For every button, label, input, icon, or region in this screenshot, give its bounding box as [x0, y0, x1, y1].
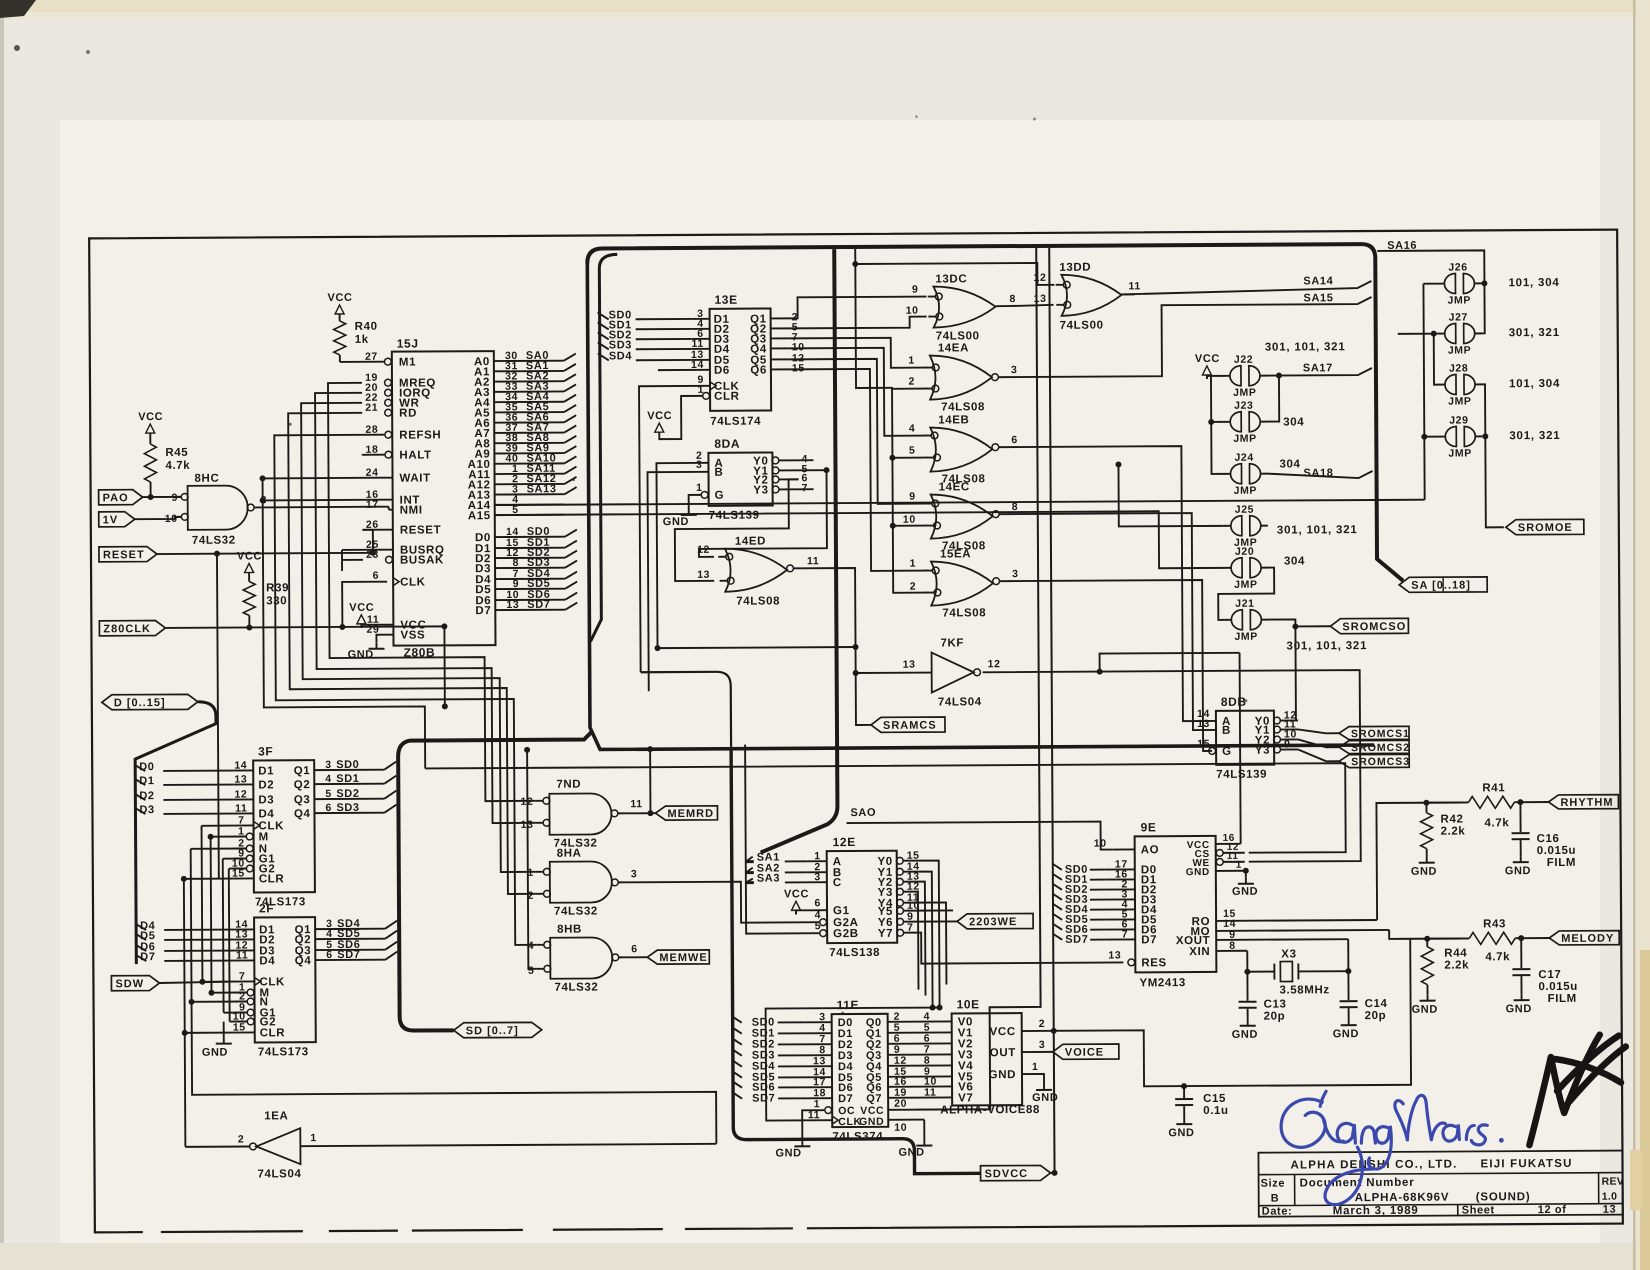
- svg-text:ALPHA-VOICE88: ALPHA-VOICE88: [940, 1104, 1040, 1117]
- wires gate second inputs common vertical: [855, 249, 928, 593]
- svg-text:D1: D1: [139, 775, 154, 787]
- svg-text:(SOUND): (SOUND): [1476, 1191, 1531, 1203]
- svg-text:R39: R39: [266, 582, 289, 594]
- wire 8DB Y0 up to SROMCSO node: [1295, 626, 1298, 720]
- jumper J28: [1445, 375, 1456, 395]
- svg-text:9E: 9E: [1141, 820, 1157, 834]
- wire N rail down to bottom rail: [192, 999, 717, 1147]
- svg-text:J21: J21: [1235, 598, 1254, 610]
- svg-text:7: 7: [907, 922, 914, 934]
- svg-text:FILM: FILM: [1548, 993, 1577, 1005]
- capacitor C16 0.015u FILM: [1519, 802, 1521, 832]
- wire 10E VCC to SDVCC net: [1022, 1030, 1054, 1032]
- svg-text:R44: R44: [1444, 947, 1467, 959]
- svg-text:1: 1: [1032, 1061, 1039, 1073]
- svg-text:330: 330: [266, 595, 287, 607]
- svg-text:VCC: VCC: [647, 410, 672, 422]
- svg-text:301, 101, 321: 301, 101, 321: [1286, 640, 1367, 652]
- svg-text:SD2: SD2: [336, 788, 359, 800]
- svg-text:11E: 11E: [837, 998, 860, 1012]
- svg-text:D4: D4: [258, 808, 274, 820]
- svg-text:CLR: CLR: [259, 873, 285, 885]
- svg-text:14: 14: [234, 760, 247, 772]
- svg-text:JMP: JMP: [1233, 387, 1256, 399]
- svg-text:301, 321: 301, 321: [1509, 430, 1560, 442]
- IC 2F 74LS173: [254, 917, 316, 1042]
- wire - thick vertical from SD bus down left of 11E: [731, 747, 980, 1174]
- svg-text:2: 2: [1039, 1018, 1046, 1030]
- wire PAO to 8HC: [143, 496, 181, 498]
- svg-text:C16: C16: [1537, 833, 1560, 845]
- svg-text:WAIT: WAIT: [400, 472, 431, 484]
- svg-text:R41: R41: [1482, 782, 1505, 794]
- svg-text:4.7k: 4.7k: [1485, 951, 1510, 963]
- svg-text:2: 2: [909, 376, 916, 388]
- wire SDVCC to C15 rail: [1053, 939, 1411, 1087]
- net flag RESET: [99, 547, 157, 562]
- net flag SDVCC: [981, 1165, 1051, 1180]
- wire 9E VCC rail upper: [1100, 653, 1240, 672]
- svg-text:SAO: SAO: [850, 807, 876, 819]
- wires 8DA inputs from below: [656, 463, 691, 648]
- capacitor C17 0.015u FILM: [1520, 938, 1522, 968]
- svg-text:14EB: 14EB: [938, 414, 969, 426]
- svg-text:SROMCS1: SROMCS1: [1351, 728, 1410, 740]
- net flag 2203WE: [957, 913, 1033, 928]
- svg-text:A15: A15: [468, 510, 491, 522]
- wire 14EB out to 8DB A: [1005, 446, 1216, 722]
- svg-text:GND: GND: [663, 516, 689, 528]
- svg-text:13: 13: [697, 569, 710, 581]
- svg-text:NMI: NMI: [400, 504, 423, 516]
- wire A14 long run to J26/J29 left rail: [495, 500, 1425, 505]
- svg-text:SROMCSO: SROMCSO: [1342, 621, 1406, 633]
- svg-text:74LS00: 74LS00: [936, 330, 980, 342]
- svg-text:G: G: [1222, 746, 1232, 758]
- svg-text:SD7: SD7: [1065, 934, 1088, 946]
- net flag RHYTHM: [1548, 795, 1618, 809]
- wire 12E G2B from bus: [745, 744, 819, 933]
- svg-text:GND: GND: [775, 1147, 801, 1159]
- wire 12E Y7 to 9E RES: [919, 931, 1123, 963]
- svg-text:6: 6: [373, 570, 380, 582]
- svg-text:74LS32: 74LS32: [554, 981, 598, 993]
- svg-text:23: 23: [366, 549, 379, 561]
- svg-text:D2: D2: [258, 779, 274, 791]
- jumper J26: [1444, 274, 1455, 294]
- title block: [1258, 1151, 1622, 1217]
- svg-text:13: 13: [903, 659, 916, 671]
- svg-text:12: 12: [234, 789, 247, 801]
- svg-text:9: 9: [909, 491, 916, 503]
- wire 11E CLK: [766, 1008, 941, 1121]
- svg-text:4: 4: [325, 773, 332, 785]
- net flag SROMCS2: [1339, 740, 1409, 753]
- wire 13DD output SA14 to bus: [1121, 281, 1371, 294]
- wire 1V to 8HC: [135, 517, 181, 519]
- svg-text:J24: J24: [1234, 452, 1253, 464]
- svg-text:2: 2: [527, 890, 534, 902]
- svg-text:JMP: JMP: [1234, 579, 1257, 591]
- net flag 1V: [99, 512, 135, 527]
- wire RESET net down to 3F CLR rail: [217, 554, 219, 879]
- svg-text:4: 4: [528, 940, 535, 952]
- svg-text:Q1: Q1: [294, 765, 311, 777]
- svg-text:5: 5: [909, 445, 916, 457]
- svg-text:1: 1: [310, 1132, 317, 1144]
- svg-text:D2: D2: [139, 790, 154, 802]
- svg-text:CLK: CLK: [400, 576, 426, 588]
- svg-text:REV: REV: [1602, 1176, 1625, 1188]
- net flag D[0..15] bus: [102, 694, 198, 710]
- jumper J21: [1231, 610, 1242, 630]
- IC 8DA 74LS139: [708, 452, 772, 505]
- svg-text:27: 27: [365, 351, 378, 363]
- svg-text:8HC: 8HC: [195, 473, 220, 485]
- svg-text:GND: GND: [859, 1116, 884, 1128]
- wire 10E OUT to VOICE: [1022, 1051, 1053, 1053]
- svg-text:GND: GND: [348, 649, 374, 661]
- svg-text:RESET: RESET: [400, 524, 441, 536]
- wire 1EA output to CLR rail: [185, 1145, 249, 1147]
- svg-text:12E: 12E: [833, 835, 856, 849]
- svg-text:X3: X3: [1281, 948, 1296, 960]
- svg-text:6: 6: [815, 897, 822, 909]
- wire 12E Y5: [919, 909, 953, 911]
- jumper J22: [1230, 366, 1241, 386]
- capacitor C13 20p: [1246, 972, 1248, 1001]
- jumper J20: [1231, 558, 1242, 578]
- wire - SD/SA bus, top horizontal run: [587, 244, 1403, 586]
- svg-text:D6: D6: [714, 365, 730, 377]
- svg-text:10: 10: [906, 305, 919, 317]
- svg-text:SA [0..18]: SA [0..18]: [1411, 579, 1471, 591]
- svg-text:13: 13: [1603, 1204, 1617, 1216]
- svg-text:SROMCS2: SROMCS2: [1351, 742, 1410, 754]
- svg-text:Size: Size: [1261, 1178, 1285, 1190]
- net flag Z80CLK: [99, 620, 165, 635]
- svg-text:SA14: SA14: [1303, 275, 1333, 287]
- svg-text:D7: D7: [140, 951, 155, 963]
- svg-text:SD3: SD3: [336, 802, 359, 814]
- wires 12E outputs down: [919, 861, 940, 1008]
- svg-text:J23: J23: [1234, 400, 1253, 412]
- wire RESET to Z80: [157, 530, 373, 554]
- svg-text:GND: GND: [1411, 866, 1437, 878]
- svg-text:11: 11: [1128, 280, 1140, 292]
- svg-text:VCC: VCC: [349, 602, 374, 614]
- svg-text:C15: C15: [1203, 1093, 1226, 1105]
- svg-text:ALPHA-68K96V: ALPHA-68K96V: [1355, 1192, 1450, 1205]
- svg-text:74LS04: 74LS04: [938, 696, 982, 708]
- svg-text:SD [0..7]: SD [0..7]: [466, 1025, 519, 1037]
- svg-text:15: 15: [792, 362, 805, 374]
- wire R40 to M1: [339, 355, 341, 362]
- resistor R42 2.2k: [1425, 803, 1427, 813]
- svg-text:1.0: 1.0: [1602, 1191, 1618, 1203]
- net flag SROMCSO: [1330, 618, 1408, 633]
- border frame of schematic sheet: [89, 230, 1623, 1233]
- svg-text:74LS32: 74LS32: [192, 535, 236, 547]
- wire - SA taps to 12E A B C: [746, 857, 753, 862]
- net flag MELODY: [1549, 931, 1619, 945]
- net flag SDW: [111, 976, 159, 991]
- svg-text:20: 20: [894, 1098, 907, 1110]
- net flag MEMWE: [647, 950, 709, 964]
- svg-text:J28: J28: [1449, 362, 1468, 374]
- svg-text:10: 10: [903, 514, 916, 526]
- svg-text:15: 15: [1197, 738, 1210, 750]
- svg-text:JMP: JMP: [1234, 631, 1257, 643]
- svg-text:2F: 2F: [259, 901, 274, 915]
- svg-text:SA13: SA13: [527, 483, 557, 495]
- svg-text:6: 6: [325, 802, 332, 814]
- svg-text:JMP: JMP: [1447, 294, 1470, 306]
- svg-text:1: 1: [908, 355, 915, 367]
- svg-text:101, 304: 101, 304: [1508, 277, 1559, 289]
- svg-text:2.2k: 2.2k: [1444, 959, 1469, 971]
- wire WAIT/INT bundle to CS rail: [263, 477, 426, 769]
- svg-text:SD7: SD7: [752, 1092, 775, 1104]
- jumper J23: [1230, 412, 1241, 432]
- svg-text:Q4: Q4: [295, 955, 312, 967]
- svg-text:MEMWE: MEMWE: [659, 952, 707, 964]
- wire RO to RHYTHM rail: [1376, 803, 1463, 920]
- wires D4-D7 inputs: [136, 924, 146, 930]
- capacitor C14 20p: [1347, 971, 1349, 1000]
- wire CLR of 3F/2F to 1EA: [184, 879, 186, 1147]
- svg-text:5: 5: [325, 788, 332, 800]
- svg-text:6: 6: [631, 943, 638, 955]
- svg-text:B: B: [1222, 725, 1231, 737]
- svg-text:D0: D0: [139, 761, 154, 773]
- svg-text:74LS139: 74LS139: [709, 510, 760, 522]
- svg-text:D3: D3: [258, 794, 274, 806]
- IC 8DB 74LS139: [1216, 711, 1274, 765]
- svg-text:12 of: 12 of: [1538, 1204, 1567, 1216]
- svg-text:D7: D7: [838, 1093, 853, 1105]
- svg-text:12: 12: [988, 658, 1001, 670]
- wire J21 right to SROMCSO: [1268, 619, 1330, 626]
- svg-text:11: 11: [807, 555, 819, 567]
- IC 12E 74LS138: [827, 851, 898, 943]
- jumper J29: [1445, 427, 1456, 447]
- svg-text:1: 1: [1236, 860, 1242, 871]
- svg-text:G: G: [715, 490, 725, 502]
- svg-text:7: 7: [802, 482, 809, 494]
- svg-text:8DA: 8DA: [714, 437, 740, 451]
- wire J25 left riser: [1118, 464, 1223, 527]
- svg-text:Sheet: Sheet: [1462, 1204, 1495, 1216]
- svg-text:Z80CLK: Z80CLK: [103, 623, 151, 635]
- svg-text:11: 11: [630, 798, 642, 810]
- svg-text:M1: M1: [399, 357, 416, 369]
- svg-text:EIJI FUKATSU: EIJI FUKATSU: [1480, 1158, 1572, 1171]
- svg-text:XIN: XIN: [1189, 946, 1210, 958]
- wire - SA bus mid vertical: [757, 249, 837, 852]
- net flag SROMCS3: [1339, 754, 1409, 767]
- svg-text:1k: 1k: [355, 334, 369, 346]
- IC Z80B 15J: [392, 351, 496, 646]
- ground at Z80 VSS: [376, 635, 393, 643]
- wire 14EA out SA15 to bus: [1005, 297, 1372, 377]
- svg-text:7KF: 7KF: [940, 637, 964, 649]
- svg-text:OUT: OUT: [990, 1047, 1016, 1059]
- svg-text:4: 4: [909, 423, 916, 435]
- svg-text:Q6: Q6: [750, 365, 767, 377]
- svg-text:GND: GND: [1505, 865, 1531, 877]
- wire 8HC output to Z80 NMI: [261, 506, 389, 509]
- svg-text:9: 9: [1284, 738, 1291, 750]
- IC 3F 74LS173: [253, 760, 315, 892]
- svg-text:14EA: 14EA: [938, 342, 969, 354]
- wire - vertical bus x=1052 down to SDVCC: [1049, 248, 1054, 1173]
- svg-text:20p: 20p: [1365, 1010, 1387, 1022]
- wire 7KF output to 9E WE: [983, 670, 1361, 863]
- svg-text:11: 11: [924, 1087, 936, 1099]
- svg-text:RES: RES: [1141, 957, 1167, 969]
- svg-text:8: 8: [1009, 293, 1016, 305]
- svg-text:101, 304: 101, 304: [1509, 378, 1560, 390]
- svg-text:3: 3: [1011, 364, 1018, 376]
- svg-text:5: 5: [528, 965, 535, 977]
- svg-text:Y7: Y7: [878, 928, 893, 940]
- svg-text:D [0..15]: D [0..15]: [114, 697, 166, 709]
- net flag SA[0..18] bus: [1399, 577, 1487, 593]
- svg-text:0.1u: 0.1u: [1203, 1105, 1228, 1117]
- wire A15 long run to J20: [495, 511, 1224, 572]
- svg-text:PAO: PAO: [103, 492, 129, 504]
- svg-text:R42: R42: [1440, 813, 1463, 825]
- wire - vertical bus x=1039: [909, 248, 1041, 1110]
- wire SDW to CLK pins: [159, 982, 234, 983]
- svg-text:13: 13: [1197, 718, 1210, 730]
- svg-text:SA15: SA15: [1303, 292, 1333, 304]
- svg-text:C: C: [833, 877, 842, 889]
- svg-text:28: 28: [365, 424, 378, 436]
- handwritten title Gang Wars in blue ink: [1281, 1090, 1504, 1205]
- svg-text:12: 12: [697, 544, 710, 556]
- svg-text:SDVCC: SDVCC: [985, 1168, 1029, 1180]
- net flag VOICE: [1053, 1044, 1119, 1059]
- svg-text:2: 2: [238, 1134, 245, 1146]
- svg-text:15J: 15J: [397, 337, 419, 351]
- svg-text:C17: C17: [1538, 969, 1561, 981]
- wire MO to MELODY rail: [1389, 930, 1463, 939]
- wires 8DA outputs: [798, 469, 826, 471]
- svg-text:304: 304: [1279, 458, 1300, 470]
- svg-text:11: 11: [235, 803, 247, 815]
- wire - SD bus to SD[0..7] flag: [398, 732, 594, 1031]
- ground at 10E: [1022, 1074, 1044, 1084]
- svg-text:74LS04: 74LS04: [258, 1168, 302, 1180]
- svg-text:SD7: SD7: [337, 949, 360, 961]
- svg-text:March 3, 1989: March 3, 1989: [1333, 1205, 1419, 1217]
- svg-text:8: 8: [1229, 940, 1236, 952]
- svg-text:3: 3: [814, 871, 821, 883]
- svg-text:20p: 20p: [1264, 1011, 1286, 1023]
- svg-text:REFSH: REFSH: [399, 429, 441, 441]
- svg-text:J22: J22: [1234, 354, 1253, 366]
- svg-text:17: 17: [366, 499, 379, 511]
- svg-text:74LS08: 74LS08: [941, 401, 985, 413]
- wire 8HB second input riser: [527, 750, 536, 969]
- svg-text:6: 6: [1011, 434, 1018, 446]
- svg-text:13DD: 13DD: [1059, 262, 1091, 274]
- svg-text:10: 10: [894, 1122, 907, 1134]
- svg-text:RHYTHM: RHYTHM: [1560, 797, 1613, 809]
- IC 10E ALPHA-VOICE88: [952, 1013, 1023, 1105]
- svg-text:YM2413: YM2413: [1139, 977, 1186, 989]
- net flag MEMRD: [655, 806, 717, 820]
- wire J26/J29 left leads vertical: [1423, 284, 1424, 500]
- IC 11E 74LS374: [832, 1014, 889, 1127]
- svg-text:R45: R45: [165, 447, 188, 459]
- svg-text:3: 3: [1039, 1039, 1046, 1051]
- svg-text:VCC: VCC: [237, 550, 262, 562]
- svg-text:2.2k: 2.2k: [1441, 825, 1466, 837]
- svg-text:0.015u: 0.015u: [1537, 845, 1576, 857]
- svg-text:GND: GND: [1333, 1028, 1359, 1040]
- svg-text:Q3: Q3: [294, 794, 311, 806]
- wires Z80 address outputs A0-A15 with SA labels: [494, 360, 564, 362]
- svg-text:VCC: VCC: [327, 292, 352, 304]
- svg-text:7: 7: [1122, 928, 1129, 940]
- svg-text:J29: J29: [1449, 414, 1468, 426]
- svg-text:13E: 13E: [714, 293, 737, 307]
- net flag SROMCS1: [1339, 726, 1409, 739]
- svg-text:SD1: SD1: [336, 773, 359, 785]
- svg-text:M: M: [259, 831, 269, 843]
- svg-text:GND: GND: [1232, 1029, 1258, 1041]
- svg-text:3: 3: [325, 759, 332, 771]
- svg-text:VCC: VCC: [990, 1026, 1016, 1038]
- svg-text:R40: R40: [355, 321, 378, 333]
- wire 8HA out to 12E G2A: [625, 881, 819, 923]
- svg-text:6: 6: [326, 949, 333, 961]
- jumper J27: [1445, 324, 1456, 344]
- svg-text:RD: RD: [399, 408, 417, 420]
- svg-text:1: 1: [527, 867, 534, 879]
- resistor R44 2.2k: [1426, 939, 1428, 947]
- svg-text:304: 304: [1283, 416, 1304, 428]
- svg-text:74LS00: 74LS00: [1060, 320, 1104, 332]
- svg-text:3.58MHz: 3.58MHz: [1279, 984, 1329, 996]
- svg-text:GND: GND: [989, 1069, 1016, 1081]
- ground at 11E pin10: [923, 1120, 925, 1140]
- capacitor C15 0.1u: [1183, 1086, 1185, 1098]
- svg-text:1EA: 1EA: [264, 1110, 288, 1122]
- svg-text:10E: 10E: [957, 997, 980, 1011]
- svg-text:14ED: 14ED: [735, 536, 766, 548]
- svg-text:8: 8: [1012, 501, 1019, 513]
- svg-text:BUSAK: BUSAK: [400, 554, 444, 566]
- wire BUSRQ/BUSAK stubs: [342, 549, 363, 551]
- svg-text:Y3: Y3: [1255, 745, 1270, 757]
- wire 9E VCC up: [1240, 653, 1241, 844]
- wire 15EA out to 8DB G: [1006, 580, 1212, 752]
- net flag SD[0..7] bus: [454, 1022, 542, 1038]
- svg-text:GND: GND: [1168, 1127, 1194, 1139]
- paper specks: [289, 423, 292, 426]
- svg-text:VOICE: VOICE: [1065, 1047, 1104, 1059]
- svg-text:GND: GND: [1032, 1092, 1058, 1104]
- net flag PAO: [99, 490, 143, 505]
- svg-text:2: 2: [910, 581, 917, 593]
- svg-text:G1: G1: [833, 905, 850, 917]
- wires SD taps into 13E: [598, 312, 609, 319]
- svg-text:4.7k: 4.7k: [1485, 817, 1510, 829]
